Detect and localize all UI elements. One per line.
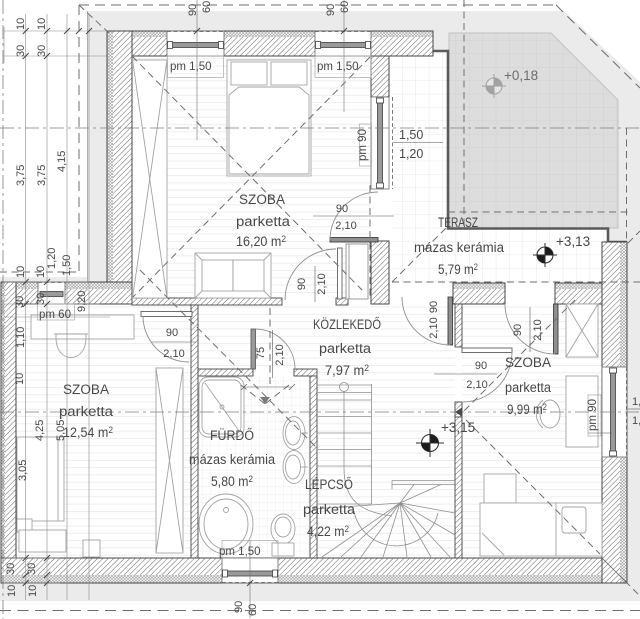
sofa bedroom1 [195, 253, 271, 298]
interior wall: bathroom north west segment [198, 369, 253, 376]
svg-text:4,22 m2: 4,22 m2 [307, 524, 349, 539]
svg-text:90: 90 [475, 360, 487, 372]
terrace floor white grid area [392, 51, 448, 283]
svg-text:5,80 m2: 5,80 m2 [211, 474, 253, 489]
svg-text:9,99 m2: 9,99 m2 [507, 402, 547, 417]
exterior wall: right [602, 242, 627, 583]
terrace window fraction bar [393, 142, 443, 144]
desk lower-left room [31, 315, 134, 339]
svg-text:pm 90: pm 90 [357, 129, 369, 161]
bottom dashed line [0, 610, 640, 612]
svg-text:1,10: 1,10 [15, 327, 27, 348]
svg-text:30: 30 [14, 296, 26, 308]
svg-text:10: 10 [27, 585, 39, 597]
chair bedroom2 [536, 400, 560, 428]
svg-text:90: 90 [428, 301, 440, 313]
shower bathroom [199, 377, 244, 437]
right window fraction bar [628, 408, 640, 410]
elevation marker +3,15 [416, 420, 475, 457]
svg-text:10: 10 [15, 266, 27, 278]
svg-text:3,75: 3,75 [36, 165, 48, 186]
window W5 bump-out (pm 60) [38, 282, 65, 304]
door D6 hall to terrace walk [402, 297, 453, 345]
terrace corner diagonal [392, 228, 446, 282]
ridge dash-dot line [0, 127, 640, 129]
left margin dimension chain lines [25, 14, 27, 600]
bed lower-left room [17, 437, 100, 557]
svg-text:10: 10 [36, 18, 48, 30]
bottom-right corner dashed diagonal [625, 581, 640, 596]
elevation marker +3,13 [533, 234, 590, 267]
bath door small dim [244, 386, 292, 388]
svg-text:5,79 m2: 5,79 m2 [438, 262, 478, 277]
interior wall: bathroom north east segment [294, 369, 317, 376]
bathroom tile grid [198, 376, 310, 558]
svg-text:30: 30 [5, 563, 17, 575]
svg-text:2,10: 2,10 [274, 344, 286, 365]
parquet stripes: hallway [198, 305, 455, 369]
svg-text:5,05: 5,05 [55, 420, 67, 441]
svg-text:10: 10 [15, 18, 27, 30]
roof overhang grey: top strip [87, 11, 447, 31]
right eave dashed segment [626, 128, 628, 243]
wall corner miter bottom-right [602, 558, 626, 582]
svg-text:SZOBA: SZOBA [239, 192, 285, 207]
door D4 fraction bar [529, 307, 531, 352]
svg-text:75: 75 [255, 347, 267, 359]
door D3 terrace door [330, 192, 378, 242]
extension lines bump-out [4, 281, 88, 283]
bed bedroom2 [480, 503, 602, 556]
svg-text:parketta: parketta [303, 502, 356, 517]
door D7 bathroom [251, 329, 295, 369]
bathtub [199, 494, 253, 554]
svg-text:mázas kerámia: mázas kerámia [414, 240, 504, 255]
winder treads [313, 503, 400, 509]
slope arrow dashed [269, 308, 271, 385]
svg-text:1,20: 1,20 [632, 415, 640, 427]
svg-text:60: 60 [339, 1, 351, 13]
svg-text:90: 90 [187, 4, 199, 16]
svg-text:parketta: parketta [236, 214, 291, 229]
lower zone diagonal [140, 270, 316, 447]
window W2 top wall right (pm 1,50) [315, 31, 371, 56]
elevation marker +0,18 (grey) [482, 68, 538, 98]
nightstand bedroom2 [484, 474, 516, 503]
svg-text:3,05: 3,05 [17, 460, 29, 481]
wc [271, 514, 295, 556]
svg-text:parketta: parketta [59, 404, 114, 419]
svg-text:10: 10 [6, 585, 18, 597]
exterior wall: top [107, 31, 433, 56]
exterior wall: left lower [1, 282, 16, 583]
left margin dash-dot [2, 0, 4, 619]
svg-text:7,97 m2: 7,97 m2 [325, 363, 369, 378]
terrace horizontal dashed [448, 211, 628, 213]
sinks bathroom [283, 417, 308, 484]
svg-text:30: 30 [15, 45, 27, 57]
roof overhang grey: bump-out top sliver [0, 277, 87, 282]
roof overhang grey: right strip [627, 243, 640, 601]
svg-text:+0,18: +0,18 [504, 68, 538, 83]
parquet stripes: stairs zone [317, 369, 455, 558]
window W3 terrace wall (pm 90 / 1,50 1,20) [371, 97, 393, 189]
bedroom2 roof V [462, 300, 575, 413]
bedroom2 north wall west segment [453, 283, 505, 304]
svg-text:90: 90 [325, 4, 337, 16]
svg-text:1,50: 1,50 [399, 128, 423, 142]
svg-text:90: 90 [512, 324, 524, 336]
bedroom1 roof X [132, 56, 362, 290]
door D5 fraction bar [434, 373, 497, 375]
eave corner miter [79, 5, 109, 33]
roof overhang grey: top-right block with bevel [433, 11, 640, 243]
extension lines top-left [4, 30, 107, 32]
roof overhang grey: left strip [87, 11, 107, 282]
svg-text:2,10: 2,10 [163, 348, 184, 360]
door D1 fraction bar [152, 341, 196, 343]
pm label boxes [168, 56, 224, 78]
wardrobe bedroom1 [133, 60, 168, 298]
svg-text:2,10: 2,10 [466, 379, 487, 391]
svg-text:mázas kerámia: mázas kerámia [189, 452, 275, 467]
interior wall: bathroom east / stairs west [310, 376, 317, 558]
svg-text:SZOBA: SZOBA [63, 382, 109, 397]
door D1 lower-left room [141, 312, 192, 363]
door D2 fraction bar [314, 266, 316, 302]
svg-text:4,25: 4,25 [34, 420, 46, 441]
section line arrow [455, 408, 462, 417]
wardrobe lower-left room [156, 368, 183, 553]
svg-text:TERASZ: TERASZ [438, 215, 478, 230]
exterior wall: left upper [107, 31, 132, 304]
svg-text:2,10: 2,10 [316, 273, 328, 294]
eave dashed bevel [556, 5, 640, 88]
svg-text:16,20 m2: 16,20 m2 [236, 234, 286, 249]
svg-text:3,75: 3,75 [15, 165, 27, 186]
slope arrowhead [260, 397, 270, 404]
bedroom2 north wall east segment [555, 283, 602, 304]
svg-text:FÜRDŐ: FÜRDŐ [210, 428, 254, 443]
svg-text:1,50: 1,50 [632, 396, 640, 408]
interior wall: stairs east lower [455, 417, 462, 558]
door D3 fraction bar [313, 215, 394, 217]
exterior wall: bump-out top [1, 282, 132, 304]
window W6 bottom wall (pm 1,50) [222, 558, 278, 583]
svg-text:parketta: parketta [319, 341, 372, 356]
exterior wall: bottom [1, 558, 627, 583]
svg-text:LÉPCSŐ: LÉPCSŐ [305, 477, 353, 492]
svg-text:+3,13: +3,13 [556, 234, 590, 249]
parquet stripes: bedroom2 [462, 304, 602, 558]
extension lines bottom [4, 557, 60, 559]
svg-text:pm 1,50: pm 1,50 [170, 61, 212, 73]
parquet stripes: bedroom1 [132, 56, 370, 298]
door D7 fraction bar [272, 330, 274, 378]
covered terrace grey polygon [449, 33, 618, 228]
svg-text:90: 90 [296, 278, 308, 290]
eave dashed left [78, 5, 80, 272]
door D4 bedroom2 from terrace [505, 304, 558, 354]
svg-text:30: 30 [26, 563, 38, 575]
svg-text:parketta: parketta [505, 380, 551, 395]
svg-text:10: 10 [14, 373, 26, 385]
roof overhang grey: bottom strip [0, 583, 640, 601]
svg-text:60: 60 [201, 1, 213, 13]
svg-text:2,10: 2,10 [428, 317, 440, 338]
svg-text:1,20: 1,20 [46, 248, 58, 269]
window W1 top wall left (pm 1,50) [167, 31, 224, 56]
eave dashed bump-out [0, 271, 79, 273]
svg-text:SZOBA: SZOBA [505, 355, 551, 370]
wall stub: terrace side upper [371, 56, 389, 97]
eave dashed top [79, 4, 556, 6]
interior wall piece right of bedroom1 door [336, 298, 348, 305]
svg-text:90: 90 [336, 203, 348, 215]
dark terrace boundary line [433, 51, 627, 242]
wall stub: terrace side lower [371, 241, 389, 304]
interior wall: bedroom1 south [132, 298, 282, 305]
svg-text:pm 60: pm 60 [39, 309, 71, 321]
parquet stripes: lower-left room [16, 304, 191, 558]
svg-text:90: 90 [166, 327, 178, 339]
bed bedroom1 [227, 60, 311, 176]
svg-text:2,10: 2,10 [335, 220, 356, 232]
section dash-dot line [0, 411, 640, 413]
walking line [340, 383, 349, 392]
svg-text:KÖZLEKEDŐ: KÖZLEKEDŐ [313, 317, 381, 332]
svg-text:pm 90: pm 90 [587, 399, 599, 431]
svg-text:pm 1,50: pm 1,50 [219, 546, 261, 558]
wardrobe bedroom2 [566, 304, 598, 357]
door D2 bedroom1 south [285, 248, 342, 300]
door D5 bedroom2 from hall [462, 348, 512, 402]
knee wall dashed at hall [369, 185, 371, 298]
landing double line [392, 480, 455, 482]
interior wall: stairs east upper [455, 304, 462, 347]
wreath curve [354, 511, 438, 546]
svg-text:pm 1,50: pm 1,50 [317, 61, 359, 73]
terrace vertical dashed [463, 0, 465, 228]
desk bedroom2 [566, 376, 598, 447]
duct box next to door D2 [346, 244, 368, 299]
svg-text:30: 30 [36, 45, 48, 57]
winder boundary [317, 503, 372, 505]
svg-text:1,50: 1,50 [61, 255, 73, 276]
svg-text:90: 90 [233, 601, 245, 613]
window W4 right wall (pm 90 / 1,50 1,20) [602, 367, 627, 457]
window axes [196, 0, 198, 140]
svg-text:60: 60 [247, 604, 259, 616]
straight flight treads [317, 384, 372, 386]
svg-text:2,10: 2,10 [532, 319, 544, 340]
svg-text:30: 30 [35, 293, 47, 305]
svg-text:12,54 m2: 12,54 m2 [63, 425, 113, 440]
knee wall dashed along bedroom2 north [392, 281, 640, 283]
svg-text:1,20: 1,20 [399, 147, 423, 161]
interior wall: stairs east stub [455, 402, 462, 417]
flight right edge [371, 384, 373, 504]
svg-text:9,20: 9,20 [76, 291, 88, 312]
svg-text:+3,15: +3,15 [441, 420, 475, 435]
interior wall: bathroom west [191, 305, 198, 558]
chair lower-left room [54, 334, 88, 358]
svg-text:4,15: 4,15 [56, 151, 68, 172]
